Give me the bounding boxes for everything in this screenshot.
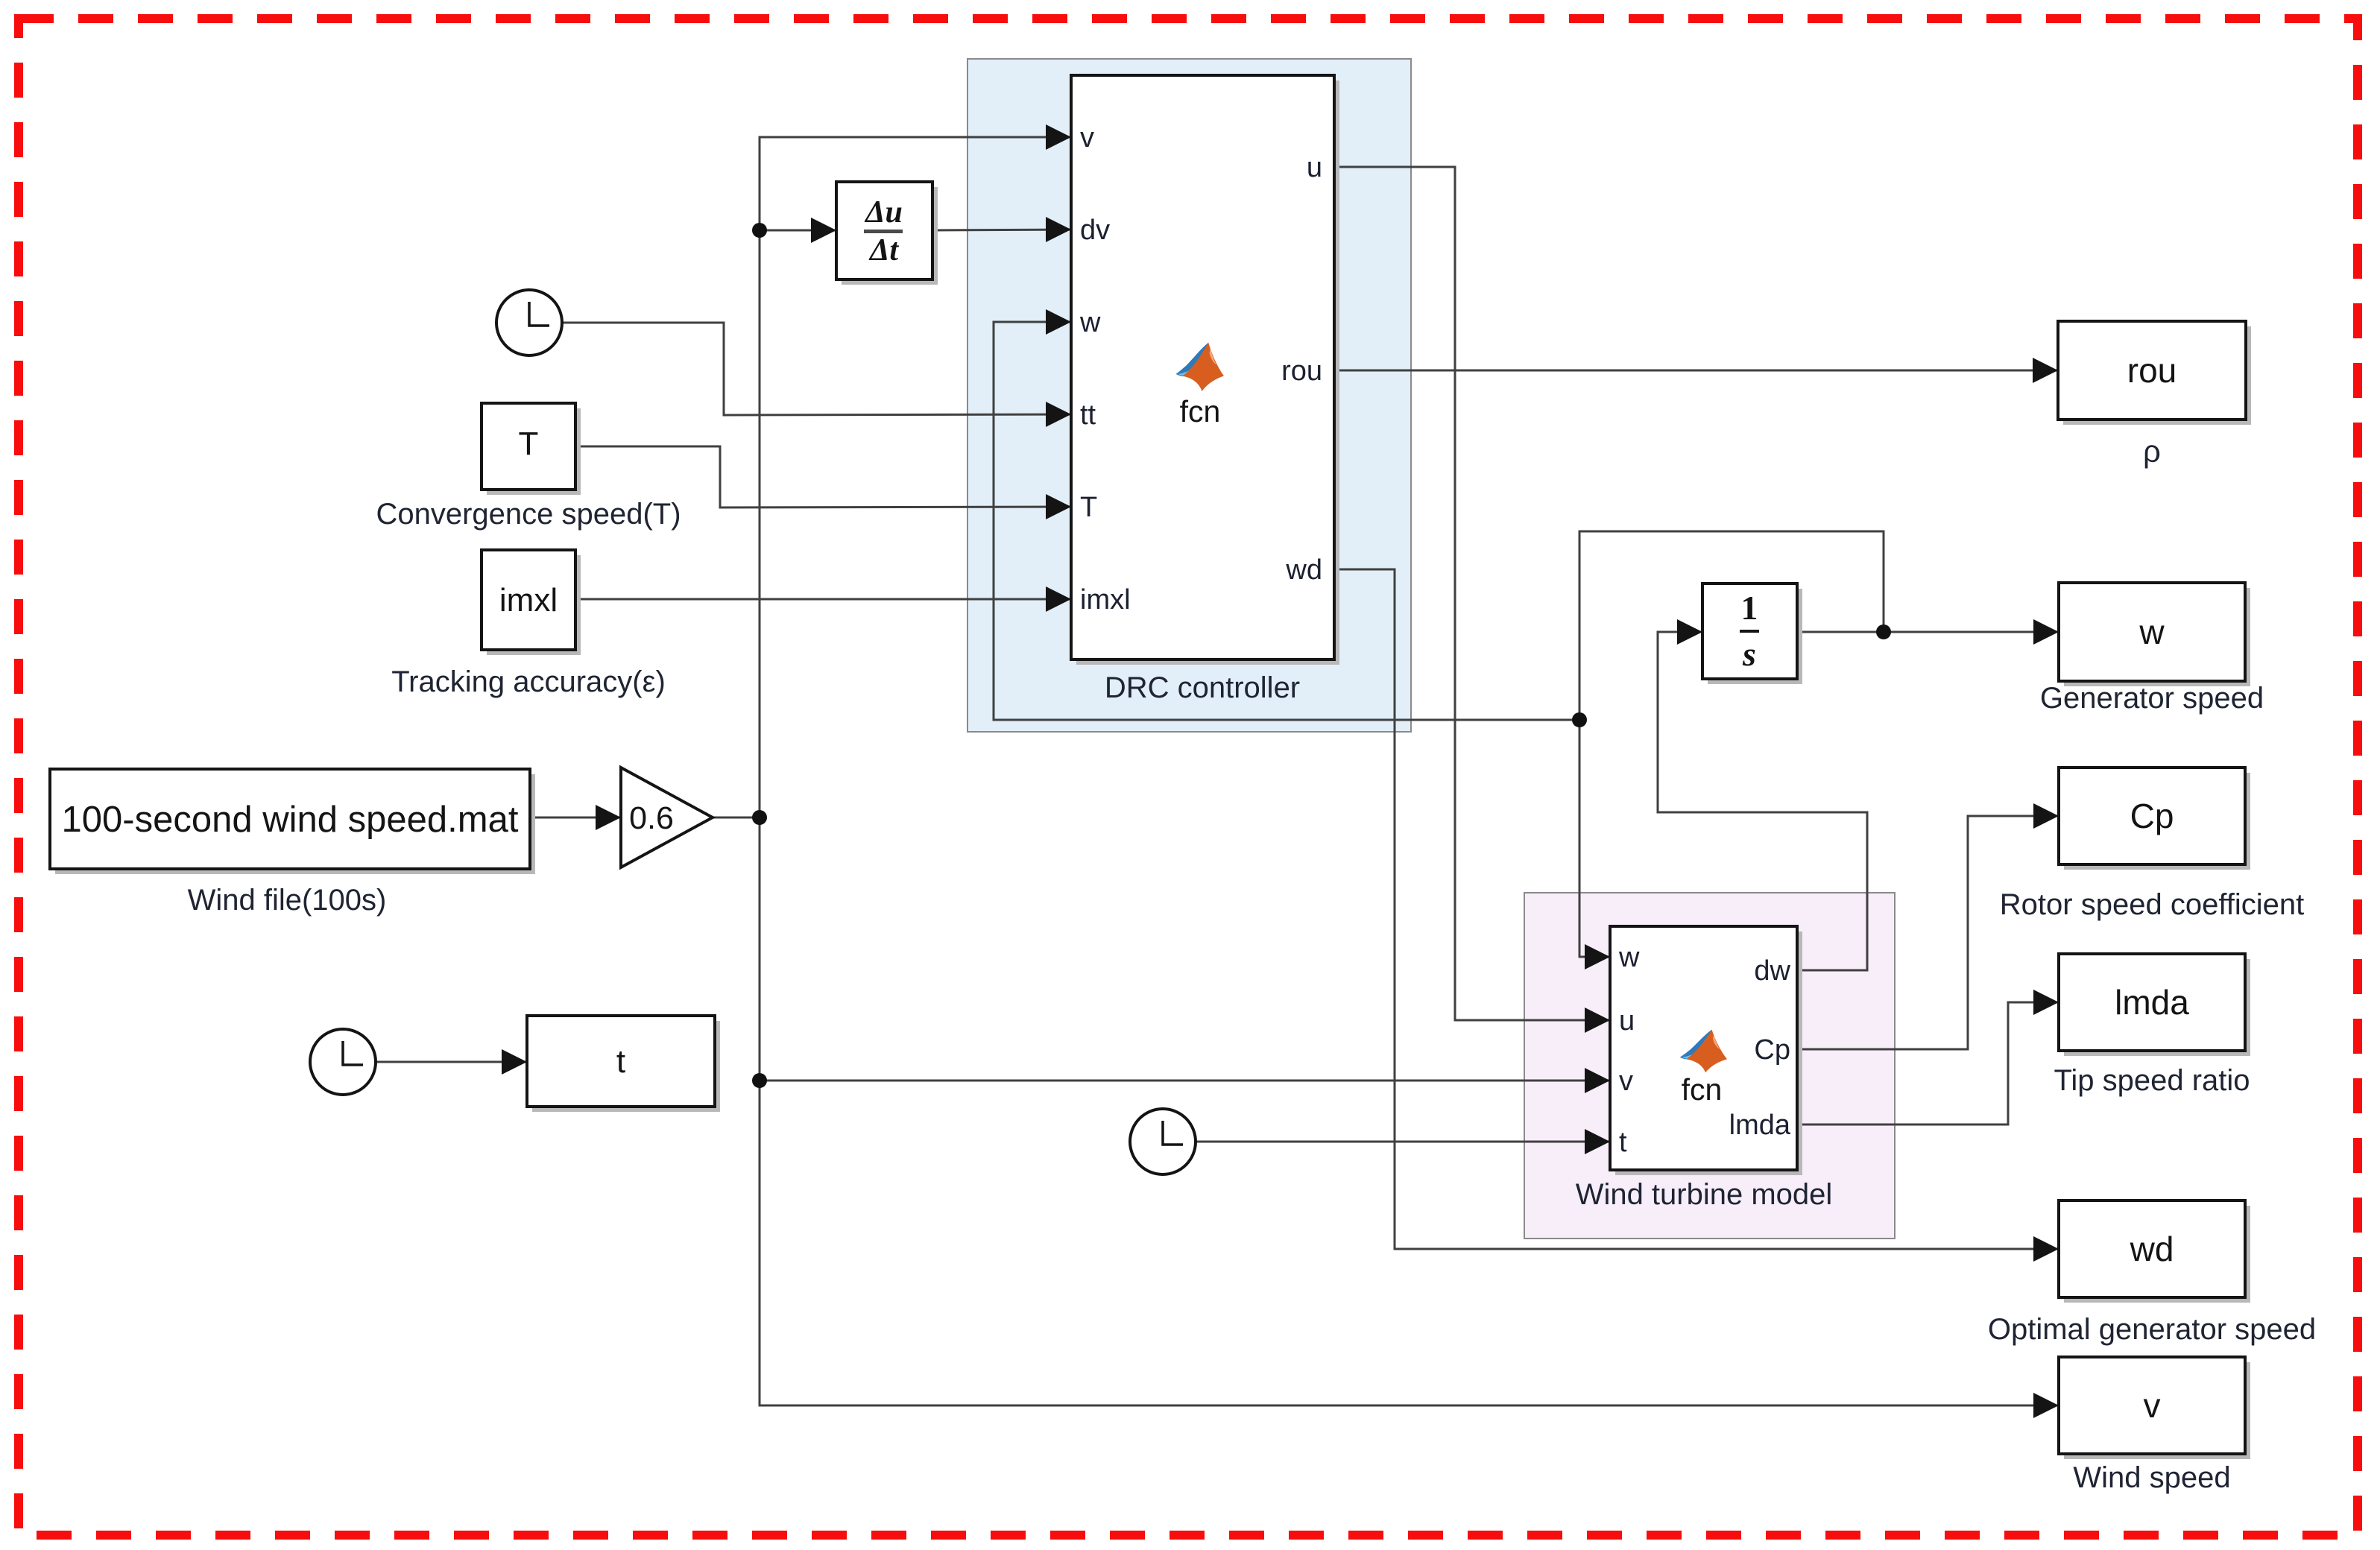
svg-text:0.6: 0.6 (629, 800, 674, 836)
svg-text:Rotor speed coefficient: Rotor speed coefficient (2000, 888, 2304, 921)
svg-text:wd: wd (2130, 1230, 2174, 1268)
svg-text:wd: wd (1285, 554, 1322, 586)
svg-text:u: u (1619, 1005, 1635, 1037)
svg-text:lmda: lmda (2115, 983, 2189, 1022)
svg-text:imxl: imxl (499, 582, 558, 619)
svg-text:fcn: fcn (1682, 1072, 1723, 1107)
svg-text:Wind turbine model: Wind turbine model (1576, 1178, 1833, 1211)
svg-text:v: v (1619, 1066, 1633, 1097)
svg-text:w: w (1618, 942, 1640, 973)
svg-text:w: w (1079, 307, 1101, 338)
svg-text:dw: dw (1754, 955, 1790, 987)
svg-text:Generator speed: Generator speed (2040, 682, 2264, 715)
svg-text:ρ: ρ (2143, 434, 2161, 469)
svg-text:w: w (2138, 613, 2165, 651)
svg-text:1: 1 (1741, 589, 1758, 627)
svg-text:Convergence speed(T): Convergence speed(T) (376, 498, 681, 531)
svg-text:Wind speed: Wind speed (2073, 1461, 2230, 1494)
svg-text:rou: rou (2127, 351, 2177, 390)
svg-text:Δu: Δu (864, 195, 903, 230)
svg-text:Tracking accuracy(ε): Tracking accuracy(ε) (391, 665, 666, 698)
svg-text:t: t (616, 1043, 625, 1080)
svg-text:tt: tt (1080, 399, 1096, 431)
svg-text:rou: rou (1281, 355, 1322, 387)
svg-text:DRC controller: DRC controller (1105, 671, 1300, 704)
svg-text:Δt: Δt (868, 233, 899, 268)
svg-text:v: v (1080, 122, 1094, 154)
svg-text:100-second wind speed.mat: 100-second wind speed.mat (62, 800, 519, 840)
svg-text:Optimal generator speed: Optimal generator speed (1988, 1313, 2316, 1346)
svg-text:lmda: lmda (1729, 1110, 1791, 1141)
svg-text:v: v (2144, 1386, 2161, 1425)
svg-text:Tip speed ratio: Tip speed ratio (2054, 1064, 2250, 1097)
svg-text:T: T (1080, 492, 1097, 523)
svg-text:T: T (519, 426, 539, 462)
svg-text:t: t (1619, 1127, 1627, 1158)
svg-text:u: u (1307, 152, 1322, 183)
svg-text:dv: dv (1080, 215, 1110, 246)
svg-text:fcn: fcn (1180, 394, 1221, 428)
svg-text:Cp: Cp (1754, 1034, 1790, 1066)
svg-text:s: s (1742, 635, 1756, 673)
svg-text:imxl: imxl (1080, 584, 1131, 616)
svg-text:Cp: Cp (2130, 797, 2174, 835)
svg-text:Wind file(100s): Wind file(100s) (188, 884, 387, 917)
